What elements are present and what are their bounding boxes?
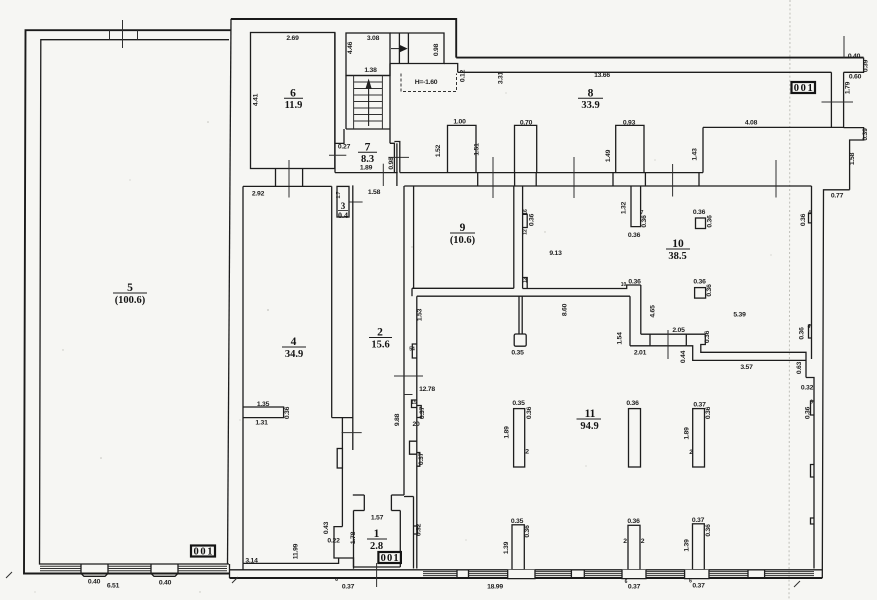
stem of hanging square: [519, 296, 522, 334]
tick right wall: [822, 101, 854, 103]
svg-text:0.44: 0.44: [680, 350, 687, 363]
svg-text:0.93: 0.93: [623, 120, 636, 127]
svg-text:12: 12: [523, 229, 529, 235]
west wall notch 0.32: [414, 526, 418, 534]
pillar P5: [628, 525, 640, 570]
right wall outer (north): [843, 72, 845, 128]
svg-text:1.53: 1.53: [417, 308, 424, 321]
svg-text:6.51: 6.51: [107, 583, 120, 590]
hanging wall 1.32: [631, 186, 641, 227]
svg-text:0.12: 0.12: [460, 69, 467, 82]
svg-text:8: 8: [588, 88, 594, 100]
svg-text:10: 10: [672, 238, 684, 250]
svg-text:11.9: 11.9: [285, 100, 303, 111]
svg-text:2: 2: [623, 538, 627, 545]
svg-text:0.4: 0.4: [338, 211, 348, 220]
svg-text:6: 6: [335, 577, 338, 583]
svg-text:0.36: 0.36: [800, 213, 807, 226]
notch r2: [811, 465, 815, 478]
svg-text:(10.6): (10.6): [450, 235, 476, 246]
room 3 label: [338, 201, 348, 220]
svg-text:0.36: 0.36: [799, 327, 806, 340]
svg-text:1.35: 1.35: [257, 401, 270, 408]
stair top box: [346, 33, 390, 76]
west wall notch 0.37b: [417, 453, 420, 467]
svg-text:15: 15: [411, 400, 417, 406]
stair treads: [354, 82, 383, 121]
svg-text:6: 6: [689, 579, 692, 585]
west wall notch 0.37a: [417, 406, 421, 418]
room 11 top-left wall: [417, 295, 630, 297]
svg-text:1.00: 1.00: [453, 119, 466, 126]
svg-text:3.08: 3.08: [367, 35, 380, 42]
bottom hatch s5: [646, 572, 685, 576]
svg-text:1.57: 1.57: [371, 515, 384, 522]
room 6 label: [284, 88, 303, 111]
svg-text:8.3: 8.3: [361, 154, 374, 165]
svg-text:0.36: 0.36: [641, 215, 648, 228]
room 1 left wall: [353, 511, 355, 568]
tick i1: [492, 157, 494, 198]
bottom hatch s6: [709, 572, 748, 576]
svg-text:11.99: 11.99: [293, 543, 300, 559]
pillar base P4: [508, 570, 535, 579]
svg-text:2.05: 2.05: [672, 327, 685, 334]
corner tick bottom left: [6, 572, 12, 578]
room 1 right wall: [399, 511, 401, 568]
svg-text:18.99: 18.99: [487, 584, 503, 591]
junction room5 band: [229, 564, 231, 578]
room 10 label: [666, 238, 690, 262]
svg-text:1.51: 1.51: [474, 143, 481, 156]
wall right end of room8 corridor: [702, 127, 704, 172]
notch2 on room10 right wall: [809, 325, 812, 338]
column square 1: [696, 218, 706, 229]
svg-text:1.39: 1.39: [684, 539, 691, 552]
tick i4: [775, 160, 777, 198]
tick 12.78: [394, 375, 423, 377]
svg-text:0.37: 0.37: [419, 406, 426, 419]
svg-text:1.54: 1.54: [617, 332, 624, 345]
room 2 label: [369, 327, 392, 351]
svg-text:94.9: 94.9: [580, 421, 598, 432]
label box 001 top right: [792, 82, 816, 94]
tick room3: [349, 201, 363, 203]
svg-text:5: 5: [127, 282, 133, 294]
svg-text:33.9: 33.9: [581, 100, 599, 111]
svg-text:0.22: 0.22: [327, 538, 340, 545]
room 9 left wall: [413, 186, 415, 288]
room 9 label: [450, 222, 476, 246]
svg-text:2.01: 2.01: [634, 350, 647, 357]
jamb box: [337, 449, 342, 469]
0.39 notch right: [844, 128, 864, 190]
svg-text:1.32: 1.32: [621, 201, 628, 214]
room 7 bottom wall: [335, 172, 398, 174]
room 9 bottom wall: [412, 287, 514, 289]
svg-text:7: 7: [641, 210, 644, 216]
room5 bottom wall hatch segment 2: [108, 566, 151, 571]
bottom outer wall band top line: [230, 569, 823, 571]
room 1 top wall right: [391, 510, 400, 512]
svg-text:1.52: 1.52: [435, 144, 442, 157]
stairwell left wall: [345, 76, 347, 130]
column square 2: [695, 288, 706, 299]
south wall room10 lower line: [686, 346, 806, 361]
svg-text:0.36: 0.36: [284, 406, 291, 419]
stairwell right wall: [389, 64, 391, 144]
window jamb right: [137, 30, 139, 40]
svg-text:0.60: 0.60: [849, 74, 862, 81]
svg-text:3.14: 3.14: [245, 558, 258, 565]
bottom hatch s7: [765, 572, 814, 576]
svg-text:0.40: 0.40: [159, 580, 172, 587]
fold line: [789, 0, 790, 600]
pillar base P5: [622, 570, 646, 579]
svg-text:1.89: 1.89: [684, 427, 691, 440]
svg-text:10: 10: [621, 282, 627, 288]
svg-text:9: 9: [460, 222, 466, 234]
room 4 right wall: [331, 186, 333, 417]
svg-text:0.35: 0.35: [511, 518, 524, 525]
jamb g: [698, 173, 700, 186]
pilaster foot bottom on wall: [523, 278, 528, 289]
tick 9.88: [404, 394, 413, 396]
stair bottom line: [346, 128, 390, 130]
room 4 top wall: [243, 185, 332, 187]
door jamb below room6 right: [302, 169, 304, 187]
svg-text:0.39: 0.39: [863, 59, 870, 72]
room 6: [251, 33, 335, 169]
bottom hatch s1: [423, 572, 457, 576]
svg-text:4: 4: [808, 324, 811, 330]
tick room7 right: [388, 156, 409, 158]
bottom outer wall band bottom line: [230, 577, 823, 579]
svg-text:0.40: 0.40: [848, 53, 861, 60]
svg-text:2.69: 2.69: [286, 35, 299, 42]
svg-text:0.36: 0.36: [628, 279, 641, 286]
room 11 west wall: [416, 296, 418, 568]
jamb d: [612, 173, 614, 186]
svg-text:1.89: 1.89: [504, 426, 511, 439]
jamb b: [514, 173, 516, 186]
svg-text:0.36: 0.36: [693, 279, 706, 286]
pillar P3: [693, 409, 705, 467]
corridor right wall lower: [413, 497, 415, 569]
south wall room10 upper line with tab: [701, 334, 806, 377]
svg-text:0.37: 0.37: [418, 452, 425, 465]
corridor wall right of rooms 2/1: [404, 496, 414, 498]
svg-text:4: 4: [291, 336, 297, 348]
notch on room10 right wall: [809, 214, 812, 223]
west wall notch 15: [412, 400, 417, 408]
room 11 label: [577, 408, 602, 432]
wall pair left of 2.01 band: [630, 285, 641, 346]
svg-text:1.89: 1.89: [360, 164, 373, 171]
svg-text:0.27: 0.27: [338, 143, 351, 150]
bottom pier 1: [457, 570, 469, 578]
svg-text:6: 6: [290, 88, 296, 100]
svg-text:(100.6): (100.6): [115, 295, 146, 306]
svg-text:0.36: 0.36: [526, 406, 533, 419]
leader room1 001: [376, 563, 378, 587]
svg-text:001: 001: [194, 547, 213, 558]
svg-text:0.37: 0.37: [692, 517, 705, 524]
pillar P1: [514, 409, 525, 467]
svg-text:12: 12: [523, 277, 529, 283]
pilaster 0.70: [515, 125, 537, 172]
svg-text:001: 001: [381, 553, 399, 564]
svg-text:4: 4: [808, 210, 811, 216]
room 9 right wall: [513, 186, 515, 288]
svg-text:0.36: 0.36: [693, 209, 706, 216]
svg-text:0.98: 0.98: [388, 157, 395, 170]
svg-text:54: 54: [409, 347, 415, 353]
notch r3: [811, 518, 815, 524]
entrance passage walls: [390, 32, 408, 34]
room4 left wall foot: [242, 563, 244, 569]
tick room4 top: [288, 160, 290, 198]
pillar P2: [629, 409, 641, 467]
notch r1: [811, 401, 815, 415]
stair landing line: [346, 75, 390, 77]
west wall jog: [410, 441, 417, 454]
svg-text:4.41: 4.41: [253, 93, 260, 106]
vestibule box 0.98: [390, 33, 444, 64]
pilaster 1.00: [448, 125, 477, 172]
svg-text:5.39: 5.39: [733, 312, 746, 319]
jamb a: [477, 173, 479, 186]
room5 bottom wall hatch segment 3: [178, 566, 227, 571]
bottom pier 3: [748, 570, 765, 578]
svg-text:0.36: 0.36: [626, 400, 639, 407]
label box 001 room1: [378, 552, 401, 564]
svg-text:H=-1.60: H=-1.60: [415, 79, 438, 86]
window jamb left: [109, 30, 111, 40]
wall room6 right / room7 left: [334, 33, 336, 173]
tick i2: [573, 157, 575, 198]
svg-text:6: 6: [810, 400, 813, 406]
room 4 label: [282, 336, 306, 360]
room 2 right wall: [403, 186, 405, 495]
svg-text:1.7: 1.7: [336, 191, 342, 198]
svg-text:1.78: 1.78: [350, 531, 357, 544]
svg-text:8.60: 8.60: [562, 303, 569, 316]
room 4 left wall: [242, 186, 244, 563]
top wall of north block: [231, 19, 456, 58]
room 7 right step: [390, 143, 394, 172]
svg-text:4.65: 4.65: [650, 305, 657, 318]
step room4/room2: [332, 417, 353, 419]
svg-text:0.37: 0.37: [342, 584, 355, 591]
svg-text:0.98: 0.98: [433, 43, 440, 56]
north band lower line: [458, 71, 832, 73]
bottom hatch s3: [535, 572, 571, 576]
tick room7 left: [329, 154, 346, 156]
svg-text:0.70: 0.70: [520, 120, 533, 127]
bottom hatch s4: [584, 572, 622, 576]
svg-text:0.36: 0.36: [628, 232, 641, 239]
stair stringer right: [381, 76, 383, 130]
scan speckles: [34, 92, 771, 592]
svg-text:0.43: 0.43: [323, 521, 330, 534]
room 5 inner wall: [40, 40, 230, 564]
passage right jamb: [407, 33, 409, 64]
svg-text:0.36: 0.36: [706, 284, 713, 297]
svg-text:0.39: 0.39: [862, 128, 869, 141]
svg-text:0.36: 0.36: [805, 406, 812, 419]
svg-text:0.36: 0.36: [705, 524, 712, 537]
svg-text:0.36: 0.36: [704, 330, 711, 343]
room 4 bottom wall: [243, 558, 339, 563]
stair up arrow: [365, 79, 371, 127]
room 1 top wall left: [354, 510, 365, 512]
step to outer right wall: [822, 190, 849, 578]
jamb c: [535, 173, 537, 186]
wall 9/10 second line: [522, 186, 524, 289]
corner tick bottom mid: [232, 577, 238, 583]
wall under vestibule: [444, 64, 458, 73]
svg-text:2: 2: [377, 327, 383, 339]
svg-text:11: 11: [585, 408, 596, 420]
label box 001 room5: [191, 546, 215, 558]
svg-text:0.32: 0.32: [416, 523, 423, 536]
north band right closure: [844, 58, 864, 73]
svg-text:1.38: 1.38: [364, 67, 377, 74]
corridor 9.13 bottom wall: [523, 285, 641, 289]
jog wall a: [341, 418, 343, 527]
svg-text:9.13: 9.13: [549, 250, 562, 257]
wall top of rooms 9 10: [404, 185, 811, 187]
svg-text:1.43: 1.43: [692, 148, 699, 161]
room 7 label: [358, 142, 377, 165]
svg-text:1.58: 1.58: [368, 189, 381, 196]
right jog 0.63/0.32: [806, 378, 814, 569]
svg-text:15.6: 15.6: [371, 339, 389, 350]
wall 4.08: [703, 126, 844, 128]
svg-text:34.9: 34.9: [285, 349, 303, 360]
room 2 left wall: [352, 185, 354, 450]
corridor jambs right of room7: [394, 142, 399, 187]
room 1 bottom wall: [354, 566, 401, 568]
entry arrow: [391, 46, 407, 52]
svg-text:12.78: 12.78: [419, 386, 435, 393]
door jamb below room6 left: [275, 169, 277, 187]
svg-text:0.36: 0.36: [707, 215, 714, 228]
svg-text:2: 2: [689, 449, 693, 456]
svg-text:20: 20: [412, 421, 420, 428]
svg-text:0.32: 0.32: [801, 385, 814, 392]
svg-text:1.79: 1.79: [845, 81, 852, 94]
band divider 2: [685, 334, 687, 346]
dashed pit H=-1.60: [401, 74, 457, 92]
svg-text:3.57: 3.57: [740, 364, 753, 371]
room 10 right wall: [811, 186, 813, 359]
svg-text:3.31: 3.31: [498, 71, 505, 84]
stair stringer left: [353, 76, 355, 130]
svg-text:38.5: 38.5: [668, 251, 686, 262]
connector room9/room11: [411, 288, 413, 296]
svg-text:0.36: 0.36: [524, 525, 531, 538]
bottom hatch s2: [469, 572, 508, 576]
svg-text:1.39: 1.39: [503, 541, 510, 554]
room 5 label: [113, 282, 147, 306]
svg-text:001: 001: [794, 83, 813, 94]
svg-text:0.35: 0.35: [512, 400, 525, 407]
pillar base P6: [685, 570, 709, 579]
room5 bottom wall hatch segment 1: [40, 566, 81, 571]
tick room4 door: [342, 432, 362, 434]
room 7 left jamb: [335, 129, 344, 143]
tick 2.05: [667, 330, 669, 359]
svg-text:1: 1: [374, 528, 380, 540]
svg-text:0.77: 0.77: [831, 193, 844, 200]
north band upper line: [456, 57, 863, 59]
window tick room5 top: [122, 20, 124, 48]
band divider 1: [649, 334, 651, 346]
svg-text:0.40: 0.40: [88, 579, 101, 586]
pilaster 0.93: [616, 125, 644, 172]
right wall inner (north): [830, 72, 832, 127]
band 2.01/2.05 top line: [641, 333, 706, 335]
svg-text:9.88: 9.88: [394, 413, 401, 426]
svg-text:2.8: 2.8: [370, 541, 383, 552]
svg-text:0.36: 0.36: [529, 213, 536, 226]
svg-text:6: 6: [625, 579, 628, 585]
svg-text:1.31: 1.31: [255, 420, 268, 427]
svg-text:3: 3: [341, 201, 346, 211]
wall room5/room4: [228, 19, 232, 564]
svg-text:2: 2: [641, 538, 645, 545]
room 1 label: [367, 528, 387, 552]
leader line room7: [382, 164, 384, 186]
svg-text:1.49: 1.49: [605, 149, 612, 162]
jamb e: [644, 173, 646, 186]
svg-text:7: 7: [365, 142, 371, 154]
room 8 bottom wall: [400, 172, 703, 174]
room 5 outer wall left: [24, 30, 231, 573]
svg-text:2.92: 2.92: [252, 191, 265, 198]
svg-text:0.36: 0.36: [627, 518, 640, 525]
svg-text:0.37: 0.37: [692, 583, 705, 590]
jog wall b: [334, 527, 354, 569]
tick top right: [843, 36, 845, 58]
neck right jamb: [390, 495, 392, 511]
west wall notch 54: [412, 344, 417, 358]
svg-text:0.63: 0.63: [796, 361, 803, 374]
corner tick bottom right: [794, 581, 800, 587]
neck left jamb: [363, 495, 365, 511]
svg-text:0.36: 0.36: [705, 406, 712, 419]
passage jamb: [398, 33, 400, 64]
pillar P6: [693, 524, 705, 570]
room 8 label: [578, 88, 603, 111]
svg-text:13.66: 13.66: [594, 72, 610, 79]
band bottom line: [630, 345, 686, 347]
pillar P4: [512, 525, 524, 570]
svg-text:2: 2: [525, 449, 529, 456]
svg-text:4.46: 4.46: [347, 41, 354, 54]
room 2 bottom wall right: [391, 494, 404, 496]
room5 bottom recess 2: [151, 564, 178, 576]
pilaster notch top on wall: [523, 214, 528, 227]
hanging square: [514, 334, 526, 346]
bottom pier 2: [571, 570, 584, 578]
svg-text:0.35: 0.35: [511, 350, 524, 357]
tick jamb f: [672, 164, 674, 197]
room 3: [337, 186, 349, 217]
room 4 wall protrusion 1.35: [243, 407, 284, 418]
